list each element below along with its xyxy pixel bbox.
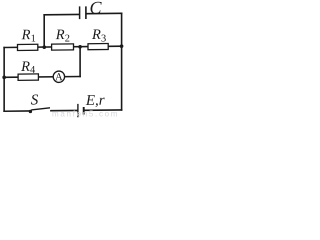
svg-text:R: R: [20, 59, 30, 75]
svg-text:2: 2: [65, 33, 70, 44]
svg-text:S: S: [31, 92, 39, 108]
svg-text:E,r: E,r: [85, 93, 105, 109]
svg-text:4: 4: [30, 65, 36, 76]
svg-text:R: R: [91, 27, 101, 43]
svg-text:R: R: [55, 27, 65, 43]
svg-text:R: R: [21, 27, 31, 43]
svg-text:1: 1: [31, 33, 36, 44]
svg-text:A: A: [55, 71, 63, 83]
svg-text:C: C: [90, 0, 103, 18]
svg-text:manfen5.com: manfen5.com: [52, 110, 119, 118]
svg-text:3: 3: [101, 33, 106, 44]
